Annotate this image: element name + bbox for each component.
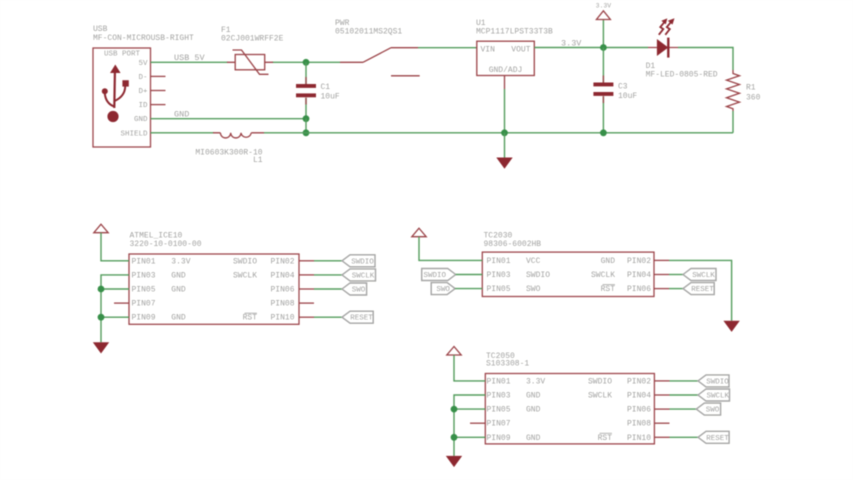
node PIN05 junction: [451, 406, 458, 413]
ground symbol below U1: [496, 158, 512, 169]
net flag RESET right: [683, 283, 714, 295]
SECTION: atmel connector: [93, 224, 376, 353]
wire PIN06 to flag: [654, 288, 683, 290]
capacitor C3 10uF: [593, 83, 637, 102]
svg-text:PIN09: PIN09: [487, 434, 511, 443]
wire PIN05: [454, 408, 485, 410]
svg-text:SWCLK: SWCLK: [588, 392, 612, 401]
svg-text:05102011MS2QS1: 05102011MS2QS1: [335, 28, 402, 37]
svg-text:SWO: SWO: [706, 407, 720, 415]
svg-text:USB PORT: USB PORT: [104, 51, 141, 59]
svg-text:PIN07: PIN07: [487, 420, 511, 429]
svg-text:PIN02: PIN02: [627, 377, 651, 386]
wire PIN10 to flag: [299, 316, 342, 318]
svg-text:SWDIO: SWDIO: [588, 377, 612, 386]
svg-text:PIN04: PIN04: [627, 392, 651, 401]
svg-text:3.3V: 3.3V: [596, 3, 612, 10]
ground symbol: [93, 342, 109, 353]
svg-text:SWDIO: SWDIO: [351, 258, 374, 266]
net flag SWCLK: [698, 389, 730, 401]
wire SWDIO flag to PIN03: [456, 274, 483, 276]
LED D1 MF-LED-0805-RED: [646, 18, 718, 79]
node 5V junction at C1: [303, 59, 310, 66]
node C3 rail junction: [600, 129, 607, 136]
pin ID: [138, 102, 165, 110]
node shield rail junction: [303, 129, 310, 136]
pin PIN10 RST: [598, 433, 652, 443]
svg-text:RST: RST: [243, 314, 258, 323]
svg-text:SWO: SWO: [526, 285, 541, 294]
wire R1 to ground rail: [732, 111, 734, 133]
pin PIN05 GND: [487, 406, 541, 415]
svg-text:USB 5V: USB 5V: [174, 53, 206, 63]
node PIN09 junction: [451, 434, 458, 441]
node PIN09 junction: [98, 314, 105, 321]
svg-text:D+: D+: [138, 88, 148, 96]
ground symbol right: [723, 321, 739, 332]
svg-text:PIN09: PIN09: [132, 314, 156, 323]
svg-text:GND: GND: [526, 392, 541, 401]
svg-text:GND: GND: [171, 286, 186, 295]
net flag SWO: [342, 283, 367, 295]
wire PIN06 to flag: [654, 408, 696, 410]
pin PIN03 GND: [487, 392, 541, 401]
svg-text:RST: RST: [601, 285, 616, 294]
pin PIN03 GND: [132, 271, 186, 280]
svg-text:3.3V: 3.3V: [171, 257, 190, 266]
svg-text:3220-10-0100-00: 3220-10-0100-00: [130, 240, 202, 249]
svg-text:RESET: RESET: [691, 286, 714, 294]
svg-text:VCC: VCC: [526, 257, 541, 266]
pin D-: [138, 74, 165, 82]
svg-text:SWO: SWO: [436, 286, 450, 294]
svg-text:GND: GND: [134, 116, 148, 124]
svg-text:3.3V: 3.3V: [526, 377, 545, 386]
svg-text:PIN04: PIN04: [270, 271, 294, 280]
svg-text:PIN07: PIN07: [132, 300, 156, 309]
fuse F1 02CJ001WRFF2E: [221, 26, 284, 74]
svg-text:PIN03: PIN03: [487, 392, 511, 401]
net flag SWDIO: [698, 375, 729, 387]
node PIN05 junction: [98, 286, 105, 293]
pin SHIELD: [120, 130, 148, 138]
svg-text:PIN02: PIN02: [270, 257, 294, 266]
inductor L1 MI0603K300R-10: [195, 133, 264, 165]
svg-text:5V: 5V: [138, 60, 148, 68]
svg-text:C3: C3: [618, 83, 628, 92]
SECTION: top power circuit: [93, 3, 761, 169]
svg-text:SWCLK: SWCLK: [692, 272, 715, 280]
svg-text:GND: GND: [526, 434, 541, 443]
svg-text:SHIELD: SHIELD: [120, 130, 148, 138]
svg-text:MF-LED-0805-RED: MF-LED-0805-RED: [646, 71, 718, 80]
svg-text:PIN06: PIN06: [270, 286, 294, 295]
pin PIN04 SWCLK: [591, 271, 651, 280]
net flag RESET: [342, 311, 373, 323]
connector ATMEL_ICE10 3220-10-0100-00 body: [129, 232, 299, 325]
wire PIN05: [101, 288, 129, 290]
wire gnd stub below rail: [504, 133, 506, 158]
pin PIN08: [627, 420, 651, 429]
wire SWO flag to PIN05: [455, 288, 482, 290]
wire PIN09: [454, 436, 485, 438]
pin PIN07: [132, 300, 156, 309]
svg-text:RESET: RESET: [350, 315, 373, 323]
net flag SWDIO left: [422, 269, 456, 281]
node GND junction: [303, 115, 310, 122]
wire PIN02 to flag: [654, 380, 698, 382]
svg-text:SWCLK: SWCLK: [706, 393, 729, 401]
svg-text:PIN10: PIN10: [627, 434, 651, 443]
wire USB 5V net: [151, 53, 341, 63]
pin PIN09 GND: [487, 434, 541, 443]
wire PIN02 to ground: [654, 260, 732, 320]
pin PIN06: [270, 286, 294, 295]
svg-text:SWCLK: SWCLK: [352, 272, 375, 280]
resistor R1 360: [727, 70, 761, 111]
regulator U1 MCP1117LPST33T3B: [476, 19, 553, 76]
svg-text:PIN02: PIN02: [627, 257, 651, 266]
pin PIN05 GND: [132, 286, 186, 295]
wire 3.3V to PIN01: [419, 237, 482, 261]
connector TC2050 S103308-1 body: [485, 352, 654, 444]
net flag SWCLK right: [683, 269, 716, 281]
USB logo icon: [102, 65, 129, 123]
wire PIN02 to flag: [299, 260, 342, 262]
wire C1 vertical: [305, 62, 307, 118]
pin stub PIN08: [299, 302, 314, 304]
net flag SWDIO: [342, 255, 375, 267]
wire PIN09: [101, 316, 129, 318]
SECTION: tc2050 connector: [446, 347, 730, 468]
pin PIN02 SWDIO: [588, 377, 651, 386]
wire 3.3V net VOUT to junction: [534, 38, 648, 48]
wire switch to VIN: [418, 47, 477, 49]
svg-text:SWCLK: SWCLK: [233, 271, 257, 280]
connector USB MF-CON-MICROUSB-RIGHT body: [93, 25, 194, 147]
power symbol 3.3V: [447, 347, 461, 356]
pin PIN05 SWO: [487, 285, 541, 294]
svg-text:SWDIO: SWDIO: [706, 378, 729, 386]
pin PIN01 VCC: [487, 257, 541, 266]
svg-text:RST: RST: [598, 434, 613, 443]
wire ground rail: [264, 132, 733, 134]
pin PIN06: [627, 406, 651, 415]
svg-text:S103308-1: S103308-1: [486, 360, 529, 369]
wire SHIELD segment: [151, 132, 215, 134]
svg-text:C1: C1: [321, 83, 331, 92]
pin PIN10 RST: [243, 313, 295, 323]
pin PIN08: [270, 300, 294, 309]
pin PIN04 SWCLK: [588, 392, 651, 401]
node U1 gnd rail junction: [501, 129, 508, 136]
svg-text:SWO: SWO: [352, 287, 366, 295]
svg-text:PIN05: PIN05: [487, 406, 511, 415]
wire PIN03 to gnd column: [101, 275, 129, 342]
svg-text:PIN05: PIN05: [487, 285, 511, 294]
power symbol 3.3V top: [596, 3, 612, 48]
net flag SWCLK: [342, 269, 376, 281]
wire 3.3V to PIN01: [454, 355, 485, 381]
svg-text:PIN03: PIN03: [132, 271, 156, 280]
svg-text:PIN01: PIN01: [487, 257, 511, 266]
svg-text:PIN01: PIN01: [132, 257, 156, 266]
svg-text:ID: ID: [138, 102, 148, 110]
power symbol 3.3V: [412, 228, 426, 237]
svg-text:3.3V: 3.3V: [561, 38, 582, 48]
svg-text:PIN08: PIN08: [270, 300, 294, 309]
pin 5V: [138, 60, 148, 68]
switch PWR 05102011MS2QS1: [335, 19, 420, 76]
net flag SWO left: [431, 283, 455, 295]
svg-text:D-: D-: [138, 74, 147, 82]
wire PIN03 to gnd column: [454, 395, 485, 456]
svg-text:GND/ADJ: GND/ADJ: [489, 66, 523, 75]
pin stub PIN08: [654, 422, 669, 424]
svg-text:SWDIO: SWDIO: [526, 271, 550, 280]
wire PIN04 to flag: [299, 274, 342, 276]
svg-text:R1: R1: [746, 84, 756, 93]
svg-text:VIN: VIN: [481, 45, 496, 54]
svg-text:MF-CON-MICROUSB-RIGHT: MF-CON-MICROUSB-RIGHT: [93, 34, 194, 43]
svg-text:PIN05: PIN05: [132, 286, 156, 295]
wire PIN04 to flag: [654, 394, 698, 396]
svg-text:GND: GND: [171, 314, 186, 323]
svg-text:RESET: RESET: [706, 435, 729, 443]
svg-text:SWCLK: SWCLK: [591, 271, 615, 280]
pin PIN02 GND: [601, 257, 652, 266]
pin D+: [138, 88, 165, 96]
wire GND net from USB: [151, 109, 307, 119]
svg-text:MCP1117LPST33T3B: MCP1117LPST33T3B: [476, 28, 553, 37]
svg-text:98306-6002HB: 98306-6002HB: [484, 240, 542, 249]
svg-text:USB: USB: [93, 25, 108, 34]
power symbol 3.3V: [94, 224, 108, 233]
svg-text:PIN06: PIN06: [627, 285, 651, 294]
svg-text:PIN06: PIN06: [627, 406, 651, 415]
pin PIN03 SWDIO: [487, 271, 551, 280]
wire LED to R1: [678, 48, 733, 71]
pin PIN09 GND: [132, 314, 186, 323]
wire PIN04 to flag: [654, 274, 683, 276]
pin PIN06 RST: [601, 285, 652, 295]
svg-text:PIN04: PIN04: [627, 271, 651, 280]
wire PIN06 to flag: [299, 288, 342, 290]
net flag SWO: [696, 403, 720, 415]
svg-text:L1: L1: [253, 156, 263, 165]
SECTION: tc2030 connector: [412, 228, 740, 332]
net flag RESET: [698, 431, 729, 443]
node 3.3V junction: [600, 44, 607, 51]
svg-text:10uF: 10uF: [321, 93, 340, 102]
pin stub PIN07: [114, 302, 129, 304]
pin stub PIN07: [470, 422, 485, 424]
wire 3.3V to PIN01: [101, 233, 129, 261]
wire GND drop to shield rail: [305, 119, 307, 133]
svg-text:PIN01: PIN01: [487, 377, 511, 386]
svg-text:SWDIO: SWDIO: [423, 272, 446, 280]
connector TC2030 98306-6002HB body: [482, 232, 654, 297]
pin PIN01 3.3V: [487, 377, 546, 386]
pin GND: [134, 116, 148, 124]
pin PIN02 SWDIO: [233, 257, 295, 266]
pin PIN01 3.3V: [132, 257, 191, 266]
svg-text:GND: GND: [601, 257, 616, 266]
pin PIN04 SWCLK: [233, 271, 295, 280]
svg-text:10uF: 10uF: [618, 92, 637, 101]
svg-text:SWDIO: SWDIO: [233, 257, 257, 266]
svg-text:GND: GND: [174, 109, 189, 119]
svg-text:PIN08: PIN08: [627, 420, 651, 429]
wire PIN10 to flag: [654, 436, 698, 438]
wire C3 vertical: [602, 48, 604, 133]
capacitor C1 10uF: [296, 83, 340, 102]
pin PIN07: [487, 420, 511, 429]
svg-text:02CJ001WRFF2E: 02CJ001WRFF2E: [221, 35, 284, 44]
svg-text:GND: GND: [171, 271, 186, 280]
ground symbol: [446, 456, 462, 467]
svg-text:GND: GND: [526, 406, 541, 415]
svg-text:PIN03: PIN03: [487, 271, 511, 280]
svg-text:VOUT: VOUT: [511, 45, 530, 54]
wire U1 GND pin down: [504, 76, 506, 133]
svg-text:360: 360: [746, 94, 761, 103]
svg-text:PIN10: PIN10: [270, 314, 294, 323]
